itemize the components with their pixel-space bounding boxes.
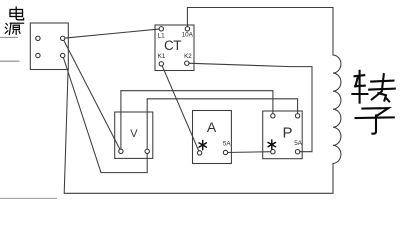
svg-text:5A: 5A (223, 141, 232, 148)
svg-text:L1: L1 (158, 32, 166, 39)
svg-text:CT: CT (164, 38, 181, 53)
svg-text:K2: K2 (184, 53, 192, 60)
svg-text:P: P (283, 125, 293, 142)
svg-text:K1: K1 (158, 53, 166, 60)
svg-text:V: V (130, 128, 138, 140)
svg-text:A: A (207, 119, 217, 135)
svg-text:10A: 10A (182, 31, 194, 38)
svg-text:5A: 5A (294, 140, 303, 147)
